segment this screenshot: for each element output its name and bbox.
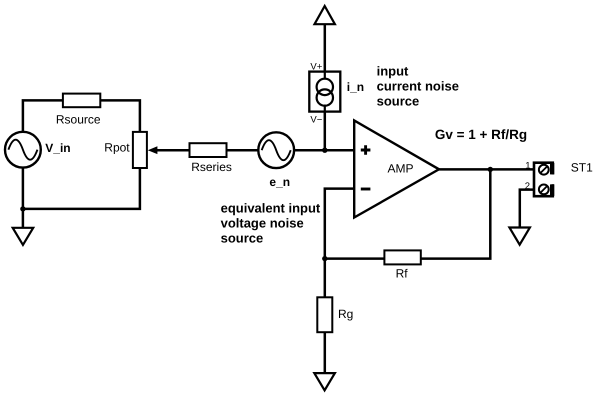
- svg-text:voltage noise: voltage noise: [221, 215, 304, 230]
- svg-text:Rf: Rf: [396, 267, 409, 281]
- svg-text:Rseries: Rseries: [191, 160, 232, 174]
- svg-text:i_n: i_n: [347, 80, 364, 94]
- svg-text:e_n: e_n: [269, 175, 290, 189]
- svg-text:V+: V+: [310, 61, 322, 72]
- svg-text:V_in: V_in: [45, 141, 70, 155]
- svg-text:V−: V−: [310, 114, 322, 125]
- svg-text:Rg: Rg: [338, 307, 353, 321]
- svg-text:equivalent input: equivalent input: [221, 200, 321, 215]
- svg-text:AMP: AMP: [388, 161, 414, 175]
- svg-text:input: input: [377, 63, 409, 78]
- svg-text:Gv = 1 + Rf/Rg: Gv = 1 + Rf/Rg: [435, 127, 527, 142]
- svg-text:Rpot: Rpot: [104, 140, 130, 154]
- svg-text:ST1: ST1: [571, 161, 593, 175]
- svg-text:2: 2: [525, 181, 530, 192]
- svg-text:source: source: [377, 94, 420, 109]
- svg-text:1: 1: [525, 160, 530, 171]
- svg-text:Rsource: Rsource: [56, 112, 101, 126]
- svg-text:current noise: current noise: [377, 79, 459, 94]
- svg-text:source: source: [221, 231, 264, 246]
